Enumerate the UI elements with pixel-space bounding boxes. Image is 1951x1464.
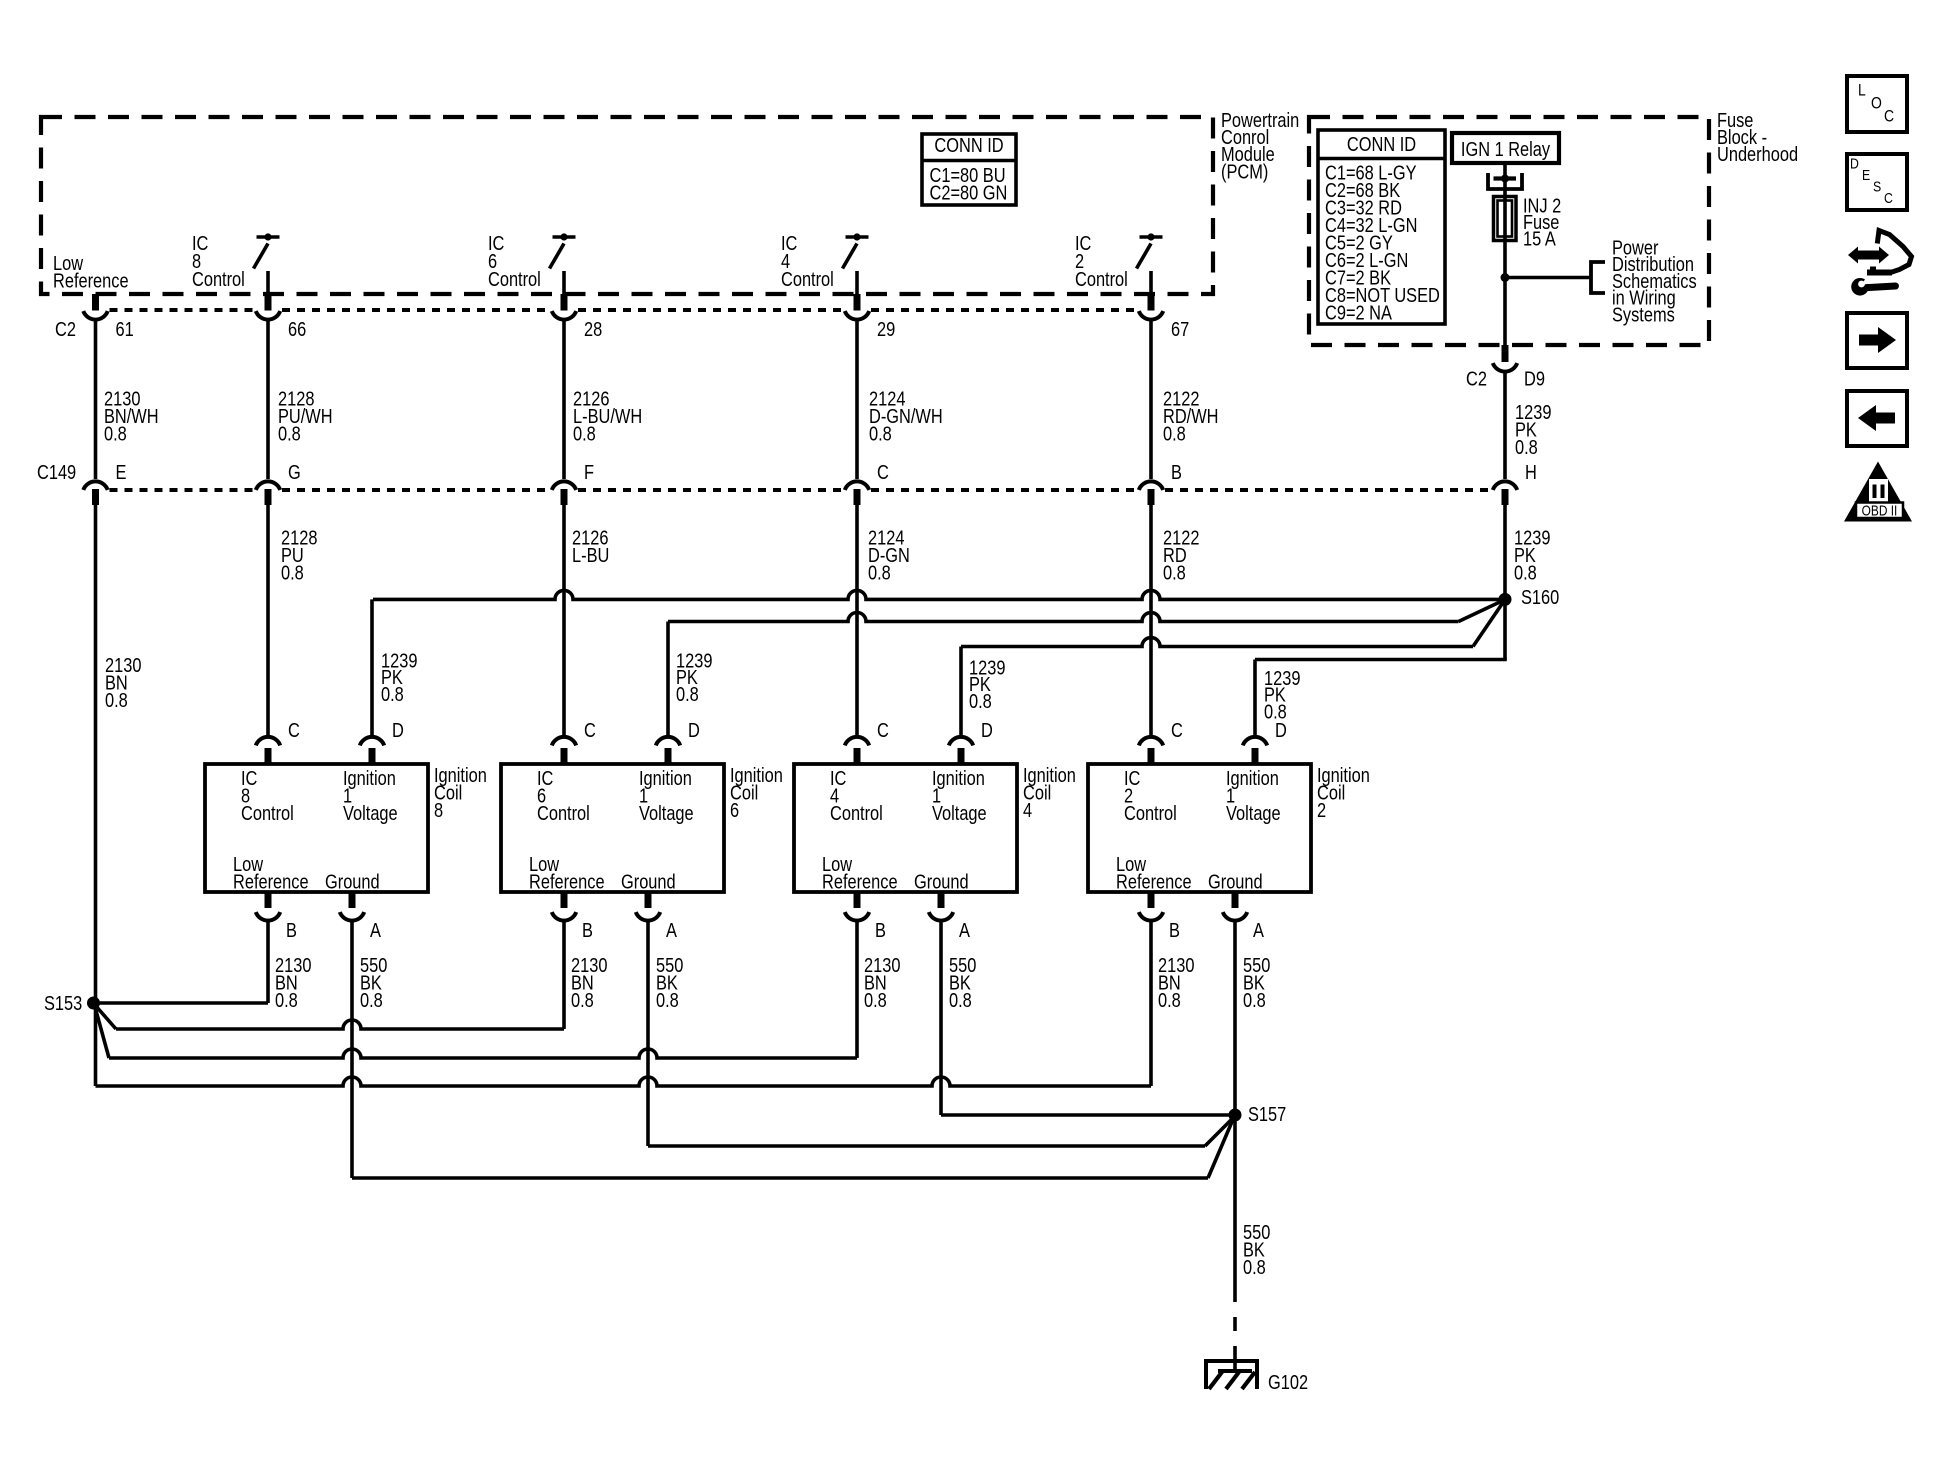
svg-text:0.8: 0.8 <box>360 988 383 1011</box>
svg-text:0.8: 0.8 <box>1163 422 1186 445</box>
C149 pin G connector <box>256 481 280 490</box>
svg-text:G102: G102 <box>1268 1370 1308 1393</box>
coil 6 pin A connector <box>645 892 652 908</box>
S157 splice dot <box>1229 1109 1242 1122</box>
svg-text:0.8: 0.8 <box>864 988 887 1011</box>
svg-text:4: 4 <box>1023 798 1032 821</box>
svg-text:Control: Control <box>241 801 294 824</box>
svg-text:Reference: Reference <box>1116 870 1192 893</box>
wire 2122 RD C149 to coil2 C <box>1149 504 1153 738</box>
wire coil8 A down <box>350 920 354 1179</box>
coil 4 pin D connector <box>949 737 973 746</box>
svg-text:0.8: 0.8 <box>969 689 992 712</box>
svg-text:S: S <box>1873 178 1881 194</box>
svg-text:Ground: Ground <box>325 870 380 893</box>
Fuse block CONN ID table box <box>1318 130 1445 324</box>
coil 4 pin A connector <box>938 892 945 908</box>
svg-text:0.8: 0.8 <box>1514 561 1537 584</box>
forward arrow icon box <box>1847 313 1907 368</box>
wire 2124 D-GN C149 to coil4 C <box>855 504 859 738</box>
svg-text:C2: C2 <box>55 317 76 340</box>
IGN 1 Relay box <box>1452 133 1559 163</box>
IC 2 driver switch <box>1140 235 1163 239</box>
svg-text:IGN 1 Relay: IGN 1 Relay <box>1461 137 1551 160</box>
C2 pin 28 connector <box>561 294 568 311</box>
svg-text:D: D <box>981 718 993 741</box>
svg-text:0.8: 0.8 <box>1515 435 1538 458</box>
svg-text:(PCM): (PCM) <box>1221 160 1268 183</box>
svg-text:Voltage: Voltage <box>639 801 694 824</box>
svg-text:B: B <box>1171 460 1182 483</box>
svg-text:Reference: Reference <box>529 870 605 893</box>
svg-text:D: D <box>1275 718 1287 741</box>
wire coil2 B down <box>1149 920 1153 1087</box>
svg-text:C: C <box>1171 718 1183 741</box>
svg-text:A: A <box>1253 918 1265 941</box>
C149 pin F connector <box>552 481 576 490</box>
svg-text:0.8: 0.8 <box>275 988 298 1011</box>
DESC icon box <box>1847 154 1907 210</box>
svg-text:Reference: Reference <box>53 269 129 292</box>
wire 2124 D-GN/WH C2 to C149 <box>855 319 859 480</box>
svg-text:B: B <box>286 918 297 941</box>
coil 2 pin B connector <box>1148 892 1155 908</box>
svg-text:0.8: 0.8 <box>949 988 972 1011</box>
svg-text:OBD II: OBD II <box>1862 502 1898 518</box>
C2 pin 29 connector <box>854 294 861 311</box>
wire coil4 A down <box>939 920 943 1116</box>
S153 line to coil4 B <box>95 1007 109 1058</box>
svg-text:0.8: 0.8 <box>656 988 679 1011</box>
wire junction to off-page bracket <box>1505 276 1591 280</box>
svg-text:C2: C2 <box>1466 367 1487 390</box>
svg-text:Ground: Ground <box>914 870 969 893</box>
wire coil6 A down <box>646 920 650 1147</box>
svg-text:Voltage: Voltage <box>932 801 987 824</box>
ignition coil 6 box <box>501 764 724 892</box>
svg-text:0.8: 0.8 <box>869 422 892 445</box>
svg-text:15 A: 15 A <box>1523 227 1557 250</box>
svg-text:C149: C149 <box>37 460 76 483</box>
svg-text:67: 67 <box>1171 317 1189 340</box>
svg-text:0.8: 0.8 <box>868 561 891 584</box>
svg-text:0.8: 0.8 <box>278 422 301 445</box>
C2 connector dotted line <box>110 308 255 312</box>
relay pivot dot <box>1501 175 1509 183</box>
ignition coil 4 box <box>794 764 1017 892</box>
C2 pin 67 connector <box>1148 294 1155 311</box>
svg-text:Control: Control <box>781 267 834 290</box>
wire 1239 PK D9 to C149 <box>1503 370 1507 479</box>
wire 1239 PK branch to coil8 D <box>373 590 1503 599</box>
ignition coil 8 box <box>205 764 428 892</box>
wire coil8 B to S153 line <box>266 920 270 1004</box>
svg-text:C: C <box>1884 107 1894 126</box>
svg-text:Ground: Ground <box>621 870 676 893</box>
wire dashed segment to ground <box>1233 1317 1237 1331</box>
OBD II icon <box>1844 462 1912 522</box>
relay contact cradle <box>1488 173 1522 189</box>
svg-text:0.8: 0.8 <box>105 688 128 711</box>
wire 1239 PK C149 to S160 <box>1503 504 1507 600</box>
svg-text:B: B <box>875 918 886 941</box>
svg-text:S160: S160 <box>1521 585 1559 608</box>
svg-text:0.8: 0.8 <box>104 422 127 445</box>
svg-text:C2=80 GN: C2=80 GN <box>930 181 1008 204</box>
svg-text:C: C <box>1884 190 1893 206</box>
wire 2126 L-BU C149 to coil6 C <box>562 504 566 738</box>
wire 2130 BN/WH C2 to C149 <box>94 319 98 480</box>
coil 4 pin C connector <box>845 737 869 746</box>
coil 4 pin B connector <box>854 892 861 908</box>
coil 8 pin A connector <box>349 892 356 908</box>
svg-text:G: G <box>288 460 301 483</box>
vehicle arrows and wrench icon <box>1848 247 1889 264</box>
svg-text:0.8: 0.8 <box>1243 988 1266 1011</box>
svg-text:C: C <box>877 460 889 483</box>
svg-text:Control: Control <box>537 801 590 824</box>
wire 2122 RD/WH C2 to C149 <box>1149 319 1153 480</box>
svg-text:2: 2 <box>1317 798 1326 821</box>
coil 6 pin B connector <box>561 892 568 908</box>
svg-text:A: A <box>370 918 382 941</box>
S153 splice dot <box>87 997 100 1010</box>
wire 2130 BN C149 to S153 <box>94 504 98 1086</box>
coil 6 pin D connector <box>656 737 680 746</box>
back arrow icon box <box>1847 391 1907 446</box>
svg-text:L: L <box>1858 81 1866 100</box>
svg-text:66: 66 <box>288 317 306 340</box>
svg-text:D: D <box>688 718 700 741</box>
svg-text:29: 29 <box>877 317 895 340</box>
svg-text:0.8: 0.8 <box>1163 561 1186 584</box>
PCM CONN ID table box <box>922 134 1016 205</box>
junction dot on fuse output <box>1501 273 1510 282</box>
wire 1239 PK branch to coil2 D <box>1503 600 1507 660</box>
fuse INJ 2 symbol <box>1494 197 1517 241</box>
IC 6 driver switch <box>553 235 576 239</box>
svg-text:Control: Control <box>830 801 883 824</box>
C149 pin H connector <box>1493 481 1517 490</box>
svg-text:0.8: 0.8 <box>573 422 596 445</box>
svg-text:0.8: 0.8 <box>676 682 699 705</box>
svg-text:0.8: 0.8 <box>1158 988 1181 1011</box>
IC 4 driver switch <box>846 235 869 239</box>
svg-text:C: C <box>288 718 300 741</box>
svg-text:C9=2 NA: C9=2 NA <box>1325 301 1393 324</box>
svg-text:Control: Control <box>488 267 541 290</box>
S153 line to coil2 B <box>96 1077 1152 1086</box>
coil 2 pin A connector <box>1232 892 1239 908</box>
Fuse Block - Underhood dashed box <box>1309 117 1709 345</box>
svg-text:A: A <box>666 918 678 941</box>
C149 pin C connector <box>845 481 869 490</box>
svg-text:6: 6 <box>730 798 739 821</box>
C149 connector dotted line <box>110 488 255 492</box>
svg-text:0.8: 0.8 <box>1243 1255 1266 1278</box>
svg-text:E: E <box>1862 167 1870 183</box>
svg-text:B: B <box>582 918 593 941</box>
wire 1239 PK branch to coil4 D <box>961 638 1473 647</box>
svg-text:D: D <box>1850 155 1859 171</box>
coil 8 pin B connector <box>265 892 272 908</box>
wire 2128 PU C149 to coil8 C <box>266 504 270 738</box>
coil 8 pin C connector <box>256 737 280 746</box>
svg-text:Underhood: Underhood <box>1717 142 1798 165</box>
svg-text:CONN ID: CONN ID <box>934 133 1003 156</box>
C2 pin 61 connector <box>92 294 99 311</box>
connector C2 D9 cup <box>1493 363 1517 372</box>
ground G102 symbol <box>1204 1359 1259 1363</box>
wire 2126 L-BU/WH C2 to C149 <box>562 319 566 480</box>
S157 line from coil8 A <box>352 1176 1208 1180</box>
S160 splice dot <box>1499 593 1512 606</box>
wire 1239 PK branch to coil6 D <box>668 613 1459 622</box>
svg-text:CONN ID: CONN ID <box>1347 132 1416 155</box>
coil 2 pin D connector <box>1243 737 1267 746</box>
coil 2 pin C connector <box>1139 737 1163 746</box>
svg-text:C: C <box>877 718 889 741</box>
svg-text:E: E <box>116 460 127 483</box>
wire coil4 B down <box>855 920 859 1059</box>
svg-text:0.8: 0.8 <box>571 988 594 1011</box>
relay armature bar <box>1494 176 1517 180</box>
svg-text:H: H <box>1525 460 1537 483</box>
svg-text:0.8: 0.8 <box>381 682 404 705</box>
svg-text:Voltage: Voltage <box>1226 801 1281 824</box>
svg-text:Control: Control <box>1124 801 1177 824</box>
svg-text:Reference: Reference <box>822 870 898 893</box>
C2 pin 66 connector <box>265 294 272 311</box>
svg-text:O: O <box>1871 94 1882 113</box>
svg-text:Systems: Systems <box>1612 303 1675 326</box>
svg-text:L-BU: L-BU <box>572 543 609 566</box>
coil 8 pin D connector <box>360 737 384 746</box>
S153 line to coil8 B <box>94 1001 269 1005</box>
off-page connector bracket <box>1591 262 1605 293</box>
svg-text:C: C <box>584 718 596 741</box>
svg-text:Control: Control <box>192 267 245 290</box>
LOC icon box <box>1847 76 1907 132</box>
S157 line from coil6 A <box>648 1144 1205 1148</box>
svg-text:D: D <box>392 718 404 741</box>
svg-text:Reference: Reference <box>233 870 309 893</box>
svg-text:Control: Control <box>1075 267 1128 290</box>
svg-text:Voltage: Voltage <box>343 801 398 824</box>
C149 pin E connector <box>83 481 107 490</box>
wire coil6 B down <box>562 920 566 1030</box>
svg-text:S153: S153 <box>44 991 82 1014</box>
svg-text:F: F <box>584 460 594 483</box>
S153 line to coil6 B <box>95 1005 116 1029</box>
svg-text:0.8: 0.8 <box>281 561 304 584</box>
Powertrain Control Module (PCM) dashed box <box>41 117 1213 294</box>
svg-text:Ground: Ground <box>1208 870 1263 893</box>
S157 line from coil4 A <box>941 1113 1233 1117</box>
C149 pin B connector <box>1139 481 1163 490</box>
wire coil2 A down through S157 <box>1233 920 1237 1303</box>
svg-text:B: B <box>1169 918 1180 941</box>
svg-text:28: 28 <box>584 317 602 340</box>
IC 8 driver switch <box>257 235 280 239</box>
svg-text:8: 8 <box>434 798 443 821</box>
svg-text:A: A <box>959 918 971 941</box>
wire 2128 PU/WH C2 to C149 <box>266 319 270 480</box>
connector C2 D9 pin <box>1502 345 1509 362</box>
svg-text:61: 61 <box>116 317 134 340</box>
wire relay to fuse/junction <box>1503 163 1507 348</box>
coil 6 pin C connector <box>552 737 576 746</box>
svg-text:S157: S157 <box>1248 1102 1286 1125</box>
svg-text:D9: D9 <box>1524 367 1545 390</box>
ignition coil 2 box <box>1088 764 1311 892</box>
